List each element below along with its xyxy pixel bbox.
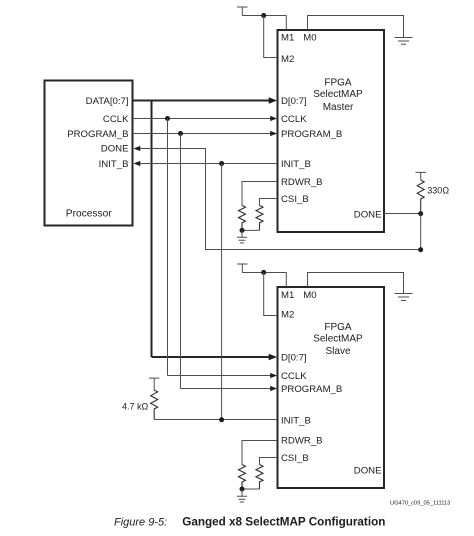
svg-text:DONE: DONE bbox=[354, 209, 382, 220]
node DONE junction at pullup bbox=[418, 211, 423, 216]
svg-text:RDWR_B: RDWR_B bbox=[281, 177, 323, 188]
svg-text:M0: M0 bbox=[303, 290, 316, 301]
wire INIT_B to slave bbox=[154, 419, 277, 421]
svg-text:330Ω: 330Ω bbox=[427, 186, 449, 196]
FPGA slave box U2 bbox=[278, 287, 385, 488]
resistor R 4.7 kohm bbox=[151, 390, 158, 420]
svg-text:INIT_B: INIT_B bbox=[281, 415, 311, 426]
arrow into master PROGRAM_B bbox=[270, 131, 277, 136]
resistor R 330 ohm bbox=[417, 180, 424, 214]
wire PROGRAM_B processor to master bbox=[133, 133, 271, 135]
node mode junction master bbox=[261, 13, 266, 18]
wire CCLK vertical branch bbox=[167, 119, 169, 376]
wire master DONE to pullup bbox=[384, 213, 421, 215]
arrow into slave D[0:7] bbox=[269, 354, 277, 361]
resistor master RDWR_B pulldown bbox=[239, 205, 246, 230]
svg-text:PROGRAM_B: PROGRAM_B bbox=[281, 129, 342, 140]
svg-text:Ganged x8 SelectMAP Configurat: Ganged x8 SelectMAP Configuration bbox=[182, 515, 385, 528]
svg-text:PROGRAM_B: PROGRAM_B bbox=[67, 129, 128, 140]
svg-text:DONE: DONE bbox=[101, 144, 129, 155]
svg-text:CSI_B: CSI_B bbox=[281, 194, 309, 205]
resistor master CSI_B pulldown bbox=[256, 205, 263, 230]
node mode junction slave bbox=[261, 270, 266, 275]
svg-text:M0: M0 bbox=[303, 33, 316, 44]
node pulldown junction master bbox=[240, 228, 245, 233]
power VCC bar above 330 ohm resistor bbox=[416, 172, 427, 180]
wire master CSI_B to pulldown bbox=[260, 199, 278, 206]
wire CCLK to slave bbox=[168, 375, 271, 377]
ground under slave pulldowns bbox=[237, 489, 247, 502]
wire slave RDWR_B to pulldown bbox=[242, 441, 277, 465]
svg-text:UG470_c09_05_111113: UG470_c09_05_111113 bbox=[390, 501, 450, 507]
wire DATA bus to slave D[0:7] bbox=[152, 356, 270, 358]
svg-text:RDWR_B: RDWR_B bbox=[281, 436, 323, 447]
arrow into slave CCLK bbox=[270, 373, 277, 378]
wire PROGRAM_B to slave bbox=[181, 388, 271, 390]
arrow DONE into processor bbox=[134, 146, 141, 151]
svg-text:CCLK: CCLK bbox=[281, 371, 307, 382]
ground at master M0 bbox=[395, 38, 413, 45]
node INIT_B junction at slave level bbox=[219, 417, 224, 422]
power VCC bar above master mode pins bbox=[237, 7, 248, 16]
svg-text:DATA[0:7]: DATA[0:7] bbox=[86, 96, 129, 107]
wire DONE net bbox=[140, 149, 420, 250]
svg-text:D[0:7]: D[0:7] bbox=[281, 96, 307, 107]
wire master M0 to ground bbox=[308, 16, 404, 38]
node CCLK junction bbox=[165, 116, 170, 121]
svg-text:CCLK: CCLK bbox=[103, 114, 129, 125]
svg-text:Master: Master bbox=[323, 102, 354, 113]
wire DONE vertical bbox=[420, 214, 422, 250]
FPGA master box U1 bbox=[278, 30, 385, 232]
power VCC bar above 4.7k resistor bbox=[149, 378, 159, 390]
arrow into slave PROGRAM_B bbox=[270, 386, 277, 391]
svg-text:4.7 kΩ: 4.7 kΩ bbox=[122, 402, 149, 412]
wire joining pulldown bottoms bbox=[242, 229, 260, 231]
svg-text:Slave: Slave bbox=[325, 346, 350, 357]
wire PROGRAM_B vertical branch bbox=[180, 134, 182, 389]
node pulldown junction slave bbox=[240, 487, 245, 492]
ground under master pulldowns bbox=[237, 230, 247, 243]
wire VCC to M1 M2 bbox=[242, 16, 286, 31]
power VCC bar above slave mode pins bbox=[237, 264, 248, 273]
wire VCC to slave M1 M2 bbox=[242, 273, 286, 288]
wire master RDWR_B to pulldown bbox=[242, 182, 277, 206]
wire DATA bus processor to master D[0:7] bbox=[133, 100, 270, 102]
arrow INIT_B into processor bbox=[134, 161, 141, 166]
wire joining slave pulldown bottoms bbox=[242, 488, 260, 490]
node INIT_B junction at master level bbox=[219, 161, 224, 166]
svg-text:PROGRAM_B: PROGRAM_B bbox=[281, 384, 342, 395]
svg-text:M2: M2 bbox=[281, 309, 294, 320]
arrow into master D[0:7] bbox=[269, 97, 277, 104]
svg-text:M2: M2 bbox=[281, 54, 294, 65]
svg-text:DONE: DONE bbox=[354, 466, 382, 477]
wire CCLK processor to master bbox=[133, 118, 271, 120]
processor box bbox=[45, 81, 133, 226]
svg-text:CCLK: CCLK bbox=[281, 114, 307, 125]
svg-text:M1: M1 bbox=[281, 290, 294, 301]
wire slave CSI_B to pulldown bbox=[260, 458, 278, 465]
wire DATA bus vertical branch bbox=[151, 101, 153, 358]
svg-text:FPGA: FPGA bbox=[324, 78, 352, 89]
ground at slave M0 bbox=[395, 294, 413, 301]
svg-text:Figure 9-5:: Figure 9-5: bbox=[114, 516, 167, 528]
node PROGRAM_B junction bbox=[178, 131, 183, 136]
svg-text:SelectMAP: SelectMAP bbox=[313, 333, 363, 344]
svg-text:INIT_B: INIT_B bbox=[99, 159, 129, 170]
resistor slave RDWR_B pulldown bbox=[239, 465, 246, 490]
svg-text:D[0:7]: D[0:7] bbox=[281, 353, 307, 364]
wire to slave M2 bbox=[264, 272, 277, 315]
svg-text:CSI_B: CSI_B bbox=[281, 453, 309, 464]
svg-text:FPGA: FPGA bbox=[324, 322, 352, 333]
wire INIT_B vertical branch bbox=[221, 164, 223, 420]
svg-text:INIT_B: INIT_B bbox=[281, 159, 311, 170]
node DONE junction lower bbox=[418, 247, 423, 252]
arrow into master CCLK bbox=[270, 116, 277, 121]
svg-text:M1: M1 bbox=[281, 33, 294, 44]
wire INIT_B processor to master bbox=[140, 163, 277, 165]
svg-text:SelectMAP: SelectMAP bbox=[313, 89, 363, 100]
wire slave M0 to ground bbox=[308, 273, 404, 294]
svg-text:Processor: Processor bbox=[66, 209, 112, 220]
resistor slave CSI_B pulldown bbox=[256, 465, 263, 490]
wire to master M2 bbox=[264, 16, 277, 58]
